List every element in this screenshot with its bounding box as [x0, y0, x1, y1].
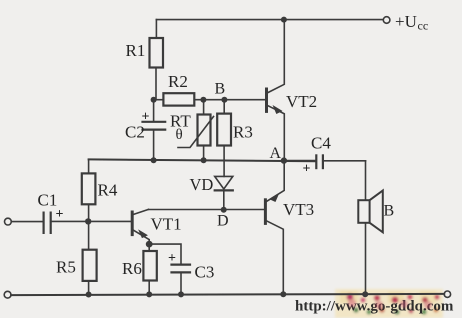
resistor R6 [143, 251, 156, 281]
wire bottom bus [11, 294, 444, 295]
wire R4 top [88, 160, 90, 173]
node top-rail junction [281, 17, 287, 23]
svg-text:R2: R2 [168, 72, 188, 91]
wire C2 bottom [153, 130, 155, 161]
resistor R5 [83, 250, 97, 281]
wire VD cathode to D [223, 190, 225, 209]
node C3/bus [178, 291, 184, 297]
node R5/bus [86, 292, 92, 298]
capacitor C1 [42, 213, 44, 233]
svg-text:R6: R6 [122, 259, 142, 278]
capacitor C3 [172, 264, 191, 266]
wire R6 bottom [148, 281, 150, 295]
node VT3/bus [280, 291, 286, 297]
node speaker/bus [362, 291, 368, 297]
node B [221, 97, 227, 103]
node D [221, 207, 227, 213]
svg-text:C2: C2 [125, 123, 145, 142]
transistor VT2 [265, 89, 268, 111]
svg-text:+U: +U [395, 12, 417, 31]
watermark logo colorful [335, 289, 443, 318]
svg-text:R1: R1 [126, 41, 146, 60]
wire R6 top [148, 244, 150, 251]
node C2/bus [151, 157, 157, 163]
node R6/bus [146, 291, 152, 297]
terminal +Ucc [383, 17, 390, 24]
terminal bottom-left [4, 291, 11, 298]
wire R4 bottom to R5 [88, 204, 90, 249]
svg-text:R5: R5 [56, 258, 76, 277]
svg-text:+: + [56, 207, 64, 222]
speaker B [365, 161, 367, 200]
wire R2 to VT2 base [194, 99, 265, 101]
svg-text:D: D [217, 213, 229, 230]
transistor VT3 [264, 200, 267, 224]
resistor R2 [163, 93, 194, 105]
resistor R4 [82, 173, 96, 204]
node RT/bus [201, 157, 207, 163]
wire R2 left [154, 99, 164, 101]
wire mid bus (node A line) [89, 159, 316, 161]
svg-text:C3: C3 [195, 263, 215, 282]
svg-text:B: B [215, 81, 226, 98]
capacitor C2 [143, 121, 166, 123]
svg-text:R3: R3 [233, 123, 253, 142]
wire D line (VT1 collector to VT3 base) [149, 209, 266, 211]
svg-text:+: + [142, 110, 150, 125]
wire C2 top [153, 100, 155, 121]
svg-text:VD: VD [190, 175, 214, 194]
svg-text:VT2: VT2 [286, 92, 317, 111]
wire input to C1 [11, 221, 42, 223]
resistor R3 [217, 114, 231, 146]
watermark logo overlay blobs [348, 299, 432, 309]
wire emitter to C3 [149, 244, 181, 265]
svg-text:+: + [303, 162, 311, 177]
wire R1 top [155, 20, 157, 38]
capacitor C4 [315, 155, 317, 168]
wire top supply rail [156, 19, 383, 21]
transistor VT1 [131, 212, 134, 235]
node RT top [200, 97, 206, 103]
node VT1 base divider [85, 218, 91, 224]
node A [281, 157, 287, 163]
wire RT top [203, 100, 205, 115]
svg-text:C4: C4 [311, 134, 331, 153]
svg-text:θ: θ [176, 127, 183, 143]
thermistor RT [198, 115, 211, 146]
svg-text:cc: cc [418, 19, 429, 33]
wire C3 bottom [180, 272, 182, 294]
wire R5 bottom [88, 281, 90, 295]
node R1/R2/C2 [151, 97, 157, 103]
svg-text:VT3: VT3 [283, 200, 314, 219]
svg-text:VT1: VT1 [151, 215, 182, 234]
terminal bottom-right [444, 291, 450, 297]
svg-text:+: + [168, 251, 176, 266]
wire RT bottom [203, 146, 205, 161]
svg-text:C1: C1 [38, 191, 58, 210]
resistor R1 [150, 38, 164, 68]
wire C1 to VT1 base [51, 220, 132, 222]
wire R3 bottom to VD (crosses bus, no connection) [223, 146, 225, 177]
wire R3 top [223, 100, 225, 114]
svg-text:R4: R4 [98, 181, 118, 200]
terminal input left [5, 218, 12, 225]
svg-text:B: B [384, 203, 395, 220]
wire C4 to speaker [323, 160, 366, 162]
svg-text:A: A [270, 145, 282, 162]
wire R1 bottom [154, 68, 156, 101]
node VT1 emitter [146, 241, 153, 248]
wire node A to C4 [284, 160, 315, 162]
diode VD [215, 176, 233, 189]
